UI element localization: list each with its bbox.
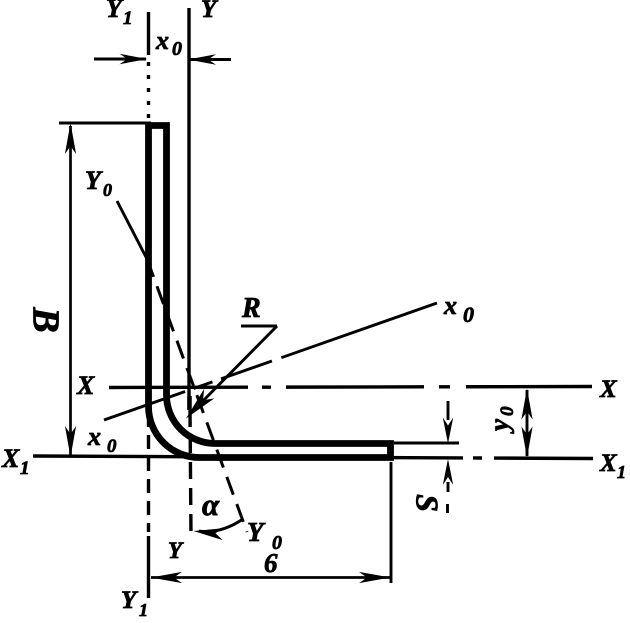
arrow y0 top	[521, 389, 532, 420]
arrow R	[186, 389, 214, 419]
arrow x0 left	[120, 54, 148, 64]
svg-text:0: 0	[107, 436, 117, 457]
svg-text:x: x	[87, 422, 101, 451]
arrow S bottom	[443, 459, 453, 485]
axis Y1 (vertical dash-dot centerline)	[147, 12, 150, 598]
axis Y0 (principal axis, dashed steep diagonal)	[147, 259, 247, 532]
alpha angle arc	[199, 519, 243, 532]
leader to Y0 label	[117, 201, 147, 259]
svg-text:X: X	[76, 371, 95, 400]
svg-text:X: X	[1, 444, 20, 473]
svg-text:R: R	[241, 293, 261, 324]
dimension line b	[151, 576, 390, 579]
extension line top of B	[59, 122, 151, 125]
svg-text:B: B	[24, 306, 66, 332]
arrow b right	[359, 572, 390, 583]
svg-text:x: x	[155, 26, 169, 55]
axis X0 (principal axis, dash-dot diagonal)	[104, 303, 437, 420]
svg-text:0: 0	[103, 180, 112, 200]
svg-text:α: α	[202, 487, 220, 522]
axis Y (vertical centroid axis)	[189, 8, 191, 537]
svg-text:1: 1	[123, 8, 133, 29]
dimension x0 left segment	[94, 58, 146, 61]
axis X (horizontal dash-dot centerline)	[109, 387, 592, 388]
arrow y0 bottom	[521, 427, 532, 458]
svg-text:0: 0	[463, 302, 474, 327]
arrow B bottom	[65, 426, 76, 457]
arrow S top	[443, 418, 453, 444]
dimension line B	[69, 126, 72, 455]
extension line for S	[394, 442, 459, 445]
arrow x0 right	[188, 54, 216, 64]
svg-text:X: X	[599, 376, 618, 403]
axis X1 (horizontal line)	[33, 456, 593, 459]
svg-text:Y: Y	[247, 517, 266, 547]
svg-text:Y: Y	[85, 166, 103, 195]
svg-text:X: X	[599, 450, 618, 477]
svg-text:1: 1	[617, 462, 626, 482]
dimension S lower segment	[447, 482, 450, 492]
svg-text:1: 1	[20, 458, 30, 479]
angle profile outline (L-section)	[149, 126, 391, 458]
svg-text:Y: Y	[106, 0, 124, 23]
svg-text:0: 0	[497, 406, 518, 416]
dimension S upper segment	[447, 401, 450, 420]
dimension line y0	[526, 390, 529, 456]
svg-text:y: y	[484, 418, 514, 434]
svg-text:Y: Y	[168, 538, 184, 563]
leader R diagonal	[192, 326, 277, 412]
arrow b left	[151, 572, 182, 583]
svg-text:S: S	[410, 494, 446, 512]
svg-text:x: x	[443, 291, 457, 320]
leader R underline	[241, 325, 277, 328]
extension line for b (right)	[390, 462, 393, 583]
svg-text:6: 6	[264, 548, 278, 578]
svg-text:1: 1	[139, 600, 148, 620]
arrow alpha	[194, 528, 225, 540]
arrow B top	[65, 123, 76, 154]
dimension x0 right segment	[189, 58, 231, 61]
svg-text:0: 0	[172, 38, 182, 60]
label y0 right (rotated)	[484, 406, 518, 434]
